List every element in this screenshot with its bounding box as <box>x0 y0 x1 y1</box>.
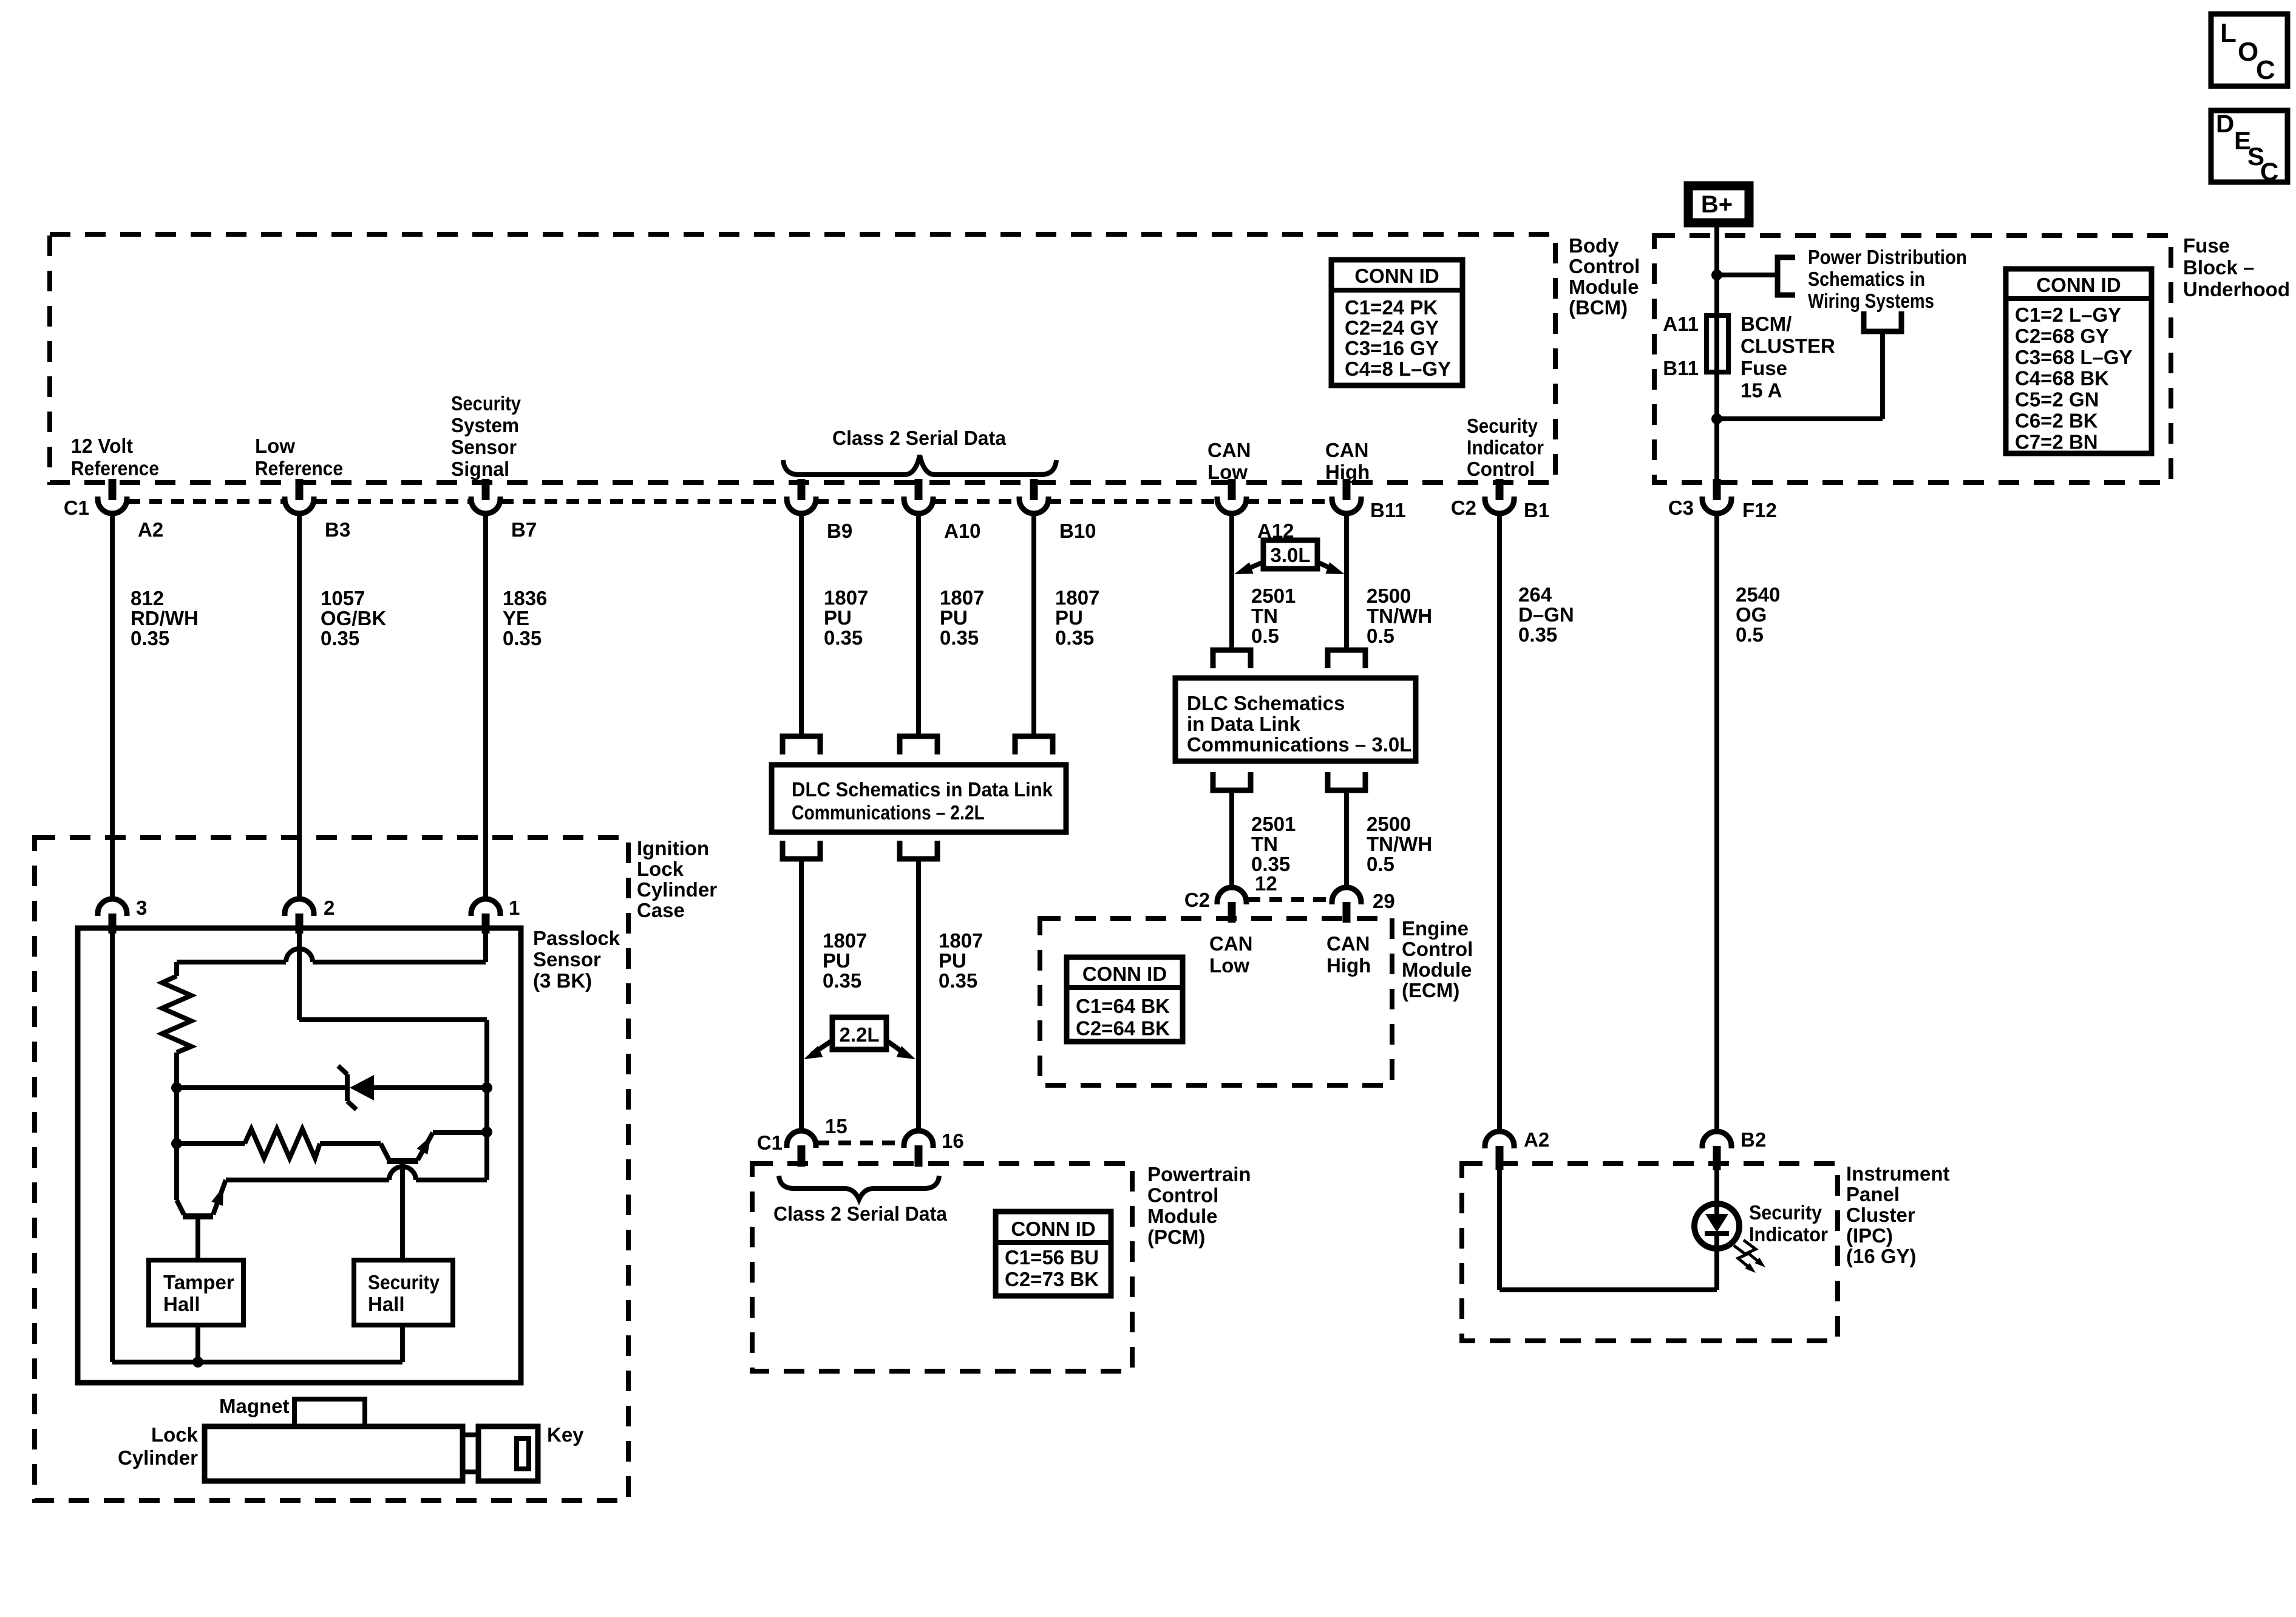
pin 2 <box>296 914 304 934</box>
svg-text:TN: TN <box>1251 605 1278 627</box>
solid box: DLC Schematics in Data Link Communications - 3.0L <box>1175 678 1416 761</box>
connector pin B11 <box>1343 479 1351 500</box>
svg-text:C2=68 GY: C2=68 GY <box>2015 325 2109 347</box>
wire from B2 to LED <box>1714 1168 1719 1215</box>
dashed box: Fuse Block - Underhood <box>1654 236 2171 483</box>
wire 2501 TN to ECM <box>1229 790 1234 886</box>
solid box: Passlock Sensor <box>78 928 521 1383</box>
staples out of DLC 2.2L box <box>783 841 820 859</box>
svg-text:CONN ID: CONN ID <box>1082 963 1167 985</box>
svg-text:Schematics in: Schematics in <box>1808 268 1925 290</box>
svg-text:0.35: 0.35 <box>321 627 359 649</box>
3.0L arrow line right <box>1317 562 1337 571</box>
svg-text:Case: Case <box>637 899 685 921</box>
svg-text:A2: A2 <box>1524 1128 1549 1151</box>
wire below LED <box>1714 1233 1719 1290</box>
ECM CONN ID table <box>1067 957 1183 1042</box>
svg-text:2.2L: 2.2L <box>839 1023 879 1046</box>
wire: Q2 emitter to right rail <box>433 1130 487 1135</box>
svg-text:Security: Security <box>1749 1201 1822 1224</box>
svg-text:PU: PU <box>940 606 968 629</box>
svg-text:TN/WH: TN/WH <box>1367 605 1432 627</box>
junction: R1 / zener line <box>171 1082 182 1093</box>
svg-text:C1: C1 <box>64 497 89 519</box>
svg-text:0.35: 0.35 <box>131 627 169 649</box>
dashed box: Instrument Panel Cluster (IPC) <box>1462 1164 1838 1341</box>
brace over class 2 serial data wires <box>783 455 1056 475</box>
off-page return staple <box>1864 311 1901 331</box>
3.0L engine callout with arrows <box>1263 540 1317 569</box>
Q1 base stem to Tamper Hall <box>195 1216 200 1260</box>
svg-text:C3=68 L–GY: C3=68 L–GY <box>2015 346 2133 368</box>
svg-text:Low: Low <box>1207 461 1248 483</box>
svg-text:OG/BK: OG/BK <box>321 607 386 629</box>
svg-text:TN: TN <box>1251 833 1278 855</box>
svg-text:C4=8 L–GY: C4=8 L–GY <box>1345 358 1451 380</box>
svg-text:Indicator: Indicator <box>1749 1223 1828 1246</box>
connector C3 pin F12 <box>1713 479 1721 500</box>
wire across IPC <box>1500 1287 1717 1292</box>
staples into DLC 3.0L box <box>1213 650 1251 668</box>
svg-text:B2: B2 <box>1741 1128 1766 1151</box>
brace under class 2 serial data (PCM) <box>779 1176 939 1199</box>
svg-text:Control: Control <box>1402 938 1473 960</box>
pin 1 <box>482 914 490 934</box>
DESC legend box <box>2211 110 2288 182</box>
svg-text:Signal: Signal <box>451 458 509 480</box>
solid box: DLC Schematics in Data Link Communications - 2.2L <box>772 765 1066 832</box>
svg-text:A10: A10 <box>944 520 981 542</box>
Q1 collector <box>177 1200 184 1215</box>
svg-text:OG: OG <box>1736 603 1767 626</box>
wire 1807 PU (B10) <box>1031 514 1036 736</box>
Q1 base bar <box>183 1213 213 1219</box>
svg-text:CONN ID: CONN ID <box>1354 265 1439 287</box>
svg-text:1: 1 <box>509 897 520 919</box>
svg-text:Key: Key <box>547 1423 584 1446</box>
svg-text:Communications – 3.0L: Communications – 3.0L <box>1187 733 1411 756</box>
svg-text:A11: A11 <box>1663 313 1699 335</box>
svg-text:1807: 1807 <box>940 586 984 609</box>
svg-text:B7: B7 <box>511 518 537 541</box>
pin 3 <box>109 914 117 934</box>
wire 1836 YE <box>483 514 488 900</box>
fuse: BCM/CLUSTER Fuse 15 A <box>1707 316 1728 372</box>
svg-text:in Data Link: in Data Link <box>1187 713 1301 735</box>
svg-text:0.35: 0.35 <box>823 969 861 992</box>
svg-text:F12: F12 <box>1742 499 1777 521</box>
svg-text:Control: Control <box>1467 458 1535 480</box>
svg-text:BCM/: BCM/ <box>1741 313 1792 335</box>
wire: return to B+ feed <box>1717 416 1883 421</box>
svg-text:Security: Security <box>451 392 521 415</box>
svg-text:Class 2 Serial Data: Class 2 Serial Data <box>773 1202 948 1225</box>
svg-text:Wiring Systems: Wiring Systems <box>1808 290 1934 312</box>
svg-text:1807: 1807 <box>1055 586 1099 609</box>
wire: left rail to Q1 collector <box>174 1088 179 1200</box>
svg-text:Underhood: Underhood <box>2183 278 2290 300</box>
dashed box: Powertrain Control Module (PCM) <box>752 1164 1132 1371</box>
svg-text:12: 12 <box>1255 872 1277 895</box>
svg-text:C4=68 BK: C4=68 BK <box>2015 367 2109 390</box>
svg-text:B11: B11 <box>1663 357 1699 379</box>
key coupler <box>463 1435 478 1472</box>
wire 1807 PU to PCM 15 <box>799 859 804 1130</box>
svg-text:CLUSTER: CLUSTER <box>1741 335 1835 358</box>
svg-text:Class 2 Serial Data: Class 2 Serial Data <box>832 427 1007 449</box>
pin 15 <box>798 1145 806 1167</box>
wire: pin1 drop <box>483 934 488 962</box>
svg-text:(BCM): (BCM) <box>1569 296 1628 319</box>
svg-text:3.0L: 3.0L <box>1270 544 1310 566</box>
LED: Security Indicator <box>1694 1204 1739 1249</box>
connector C2 pin B1 <box>1496 479 1504 500</box>
connector pin B10 <box>1030 479 1038 500</box>
3.0L arrowhead left <box>1234 562 1254 574</box>
PCM connector dotted line <box>817 1141 903 1145</box>
Q1 emitter <box>213 1180 226 1215</box>
IPC connector arcs and pins <box>1485 1131 1514 1148</box>
svg-text:264: 264 <box>1518 583 1552 606</box>
svg-text:Instrument: Instrument <box>1846 1162 1950 1185</box>
Q2 collector <box>381 1144 389 1160</box>
svg-text:C1=64 BK: C1=64 BK <box>1076 995 1170 1017</box>
magnet <box>294 1399 365 1426</box>
svg-text:Control: Control <box>1569 255 1640 277</box>
lock cylinder <box>205 1426 463 1481</box>
junction: R2 left <box>171 1138 182 1149</box>
svg-text:(ECM): (ECM) <box>1402 979 1459 1002</box>
svg-text:0.35: 0.35 <box>503 627 542 649</box>
2.2L engine callout with arrows <box>832 1017 886 1049</box>
svg-text:B+: B+ <box>1701 191 1733 218</box>
svg-text:C2=73 BK: C2=73 BK <box>1005 1268 1099 1290</box>
Q2 base stem to Security Hall <box>400 1161 405 1260</box>
Q2 base bar <box>387 1158 418 1164</box>
svg-text:1807: 1807 <box>823 929 867 952</box>
PCM connector arcs and pins <box>787 1131 816 1148</box>
wire: Security Hall to ground bus <box>400 1325 405 1362</box>
svg-text:B3: B3 <box>325 518 350 541</box>
pin A2 (IPC) <box>1496 1146 1504 1170</box>
wire 264 D-GN (Security Indicator Control) <box>1497 514 1502 1130</box>
svg-text:C1=2 L–GY: C1=2 L–GY <box>2015 303 2121 326</box>
svg-text:(IPC): (IPC) <box>1846 1224 1893 1247</box>
svg-text:Lock: Lock <box>637 858 684 880</box>
svg-text:CAN: CAN <box>1207 439 1251 461</box>
ECM connector dotted line <box>1248 897 1331 902</box>
pin B2 (IPC) <box>1713 1146 1721 1170</box>
svg-text:L: L <box>2220 18 2237 48</box>
svg-text:CAN: CAN <box>1325 439 1369 461</box>
svg-text:C7=2 BN: C7=2 BN <box>2015 430 2098 453</box>
off-page bracket: Power Distribution <box>1778 257 1795 295</box>
svg-text:(PCM): (PCM) <box>1147 1226 1205 1249</box>
svg-text:Module: Module <box>1569 276 1639 298</box>
svg-text:CAN: CAN <box>1209 932 1253 955</box>
junction to Power Distribution feed <box>1711 269 1722 280</box>
svg-text:Ignition: Ignition <box>637 837 709 859</box>
svg-text:2501: 2501 <box>1251 813 1296 835</box>
svg-text:PU: PU <box>939 949 966 972</box>
staples into DLC 2.2L box <box>783 736 820 754</box>
box: Security Hall <box>354 1260 453 1325</box>
svg-text:0.35: 0.35 <box>1055 626 1094 649</box>
svg-text:Security: Security <box>368 1271 440 1293</box>
resistor R1 (vertical) <box>162 976 191 1053</box>
wire 2500 TN/WH (CAN High) <box>1344 514 1349 650</box>
svg-text:YE: YE <box>503 607 529 629</box>
svg-text:PU: PU <box>824 606 852 629</box>
svg-text:Reference: Reference <box>255 457 343 480</box>
wire: pin2 across <box>299 1017 487 1022</box>
junction: tamper hall ground <box>192 1357 203 1368</box>
key <box>478 1426 538 1481</box>
svg-text:CONN ID: CONN ID <box>2036 274 2121 296</box>
svg-text:C2: C2 <box>1451 497 1476 519</box>
Q2 emitter <box>418 1133 433 1160</box>
svg-text:12 Volt: 12 Volt <box>71 435 133 457</box>
svg-text:C1: C1 <box>757 1131 783 1154</box>
svg-text:1057: 1057 <box>321 587 365 609</box>
wire 2500 TN/WH to ECM <box>1344 790 1349 886</box>
svg-text:High: High <box>1326 954 1371 977</box>
svg-text:Block –: Block – <box>2183 256 2254 279</box>
svg-text:Passlock: Passlock <box>533 927 620 949</box>
svg-text:C1=56 BU: C1=56 BU <box>1005 1246 1099 1269</box>
svg-text:System: System <box>451 414 519 436</box>
svg-text:C5=2 GN: C5=2 GN <box>2015 388 2099 411</box>
wire 1807 PU (B9) <box>799 514 804 736</box>
svg-text:Magnet: Magnet <box>219 1395 290 1417</box>
svg-text:0.5: 0.5 <box>1736 623 1764 646</box>
svg-text:PU: PU <box>823 949 851 972</box>
wire 2501 TN (CAN Low) <box>1229 514 1234 650</box>
ECM connector arcs and pins <box>1217 887 1246 904</box>
svg-text:812: 812 <box>131 587 164 609</box>
connector pin A12 <box>1228 479 1236 500</box>
wire hop over pin2 wire <box>286 949 313 962</box>
svg-text:Body: Body <box>1569 234 1619 257</box>
svg-text:A2: A2 <box>138 518 163 541</box>
wire hop over Q2 stem <box>389 1167 416 1180</box>
lower cross wire with hop <box>416 1178 487 1182</box>
wire 1057 OG/BK <box>297 514 302 900</box>
3.0L arrowhead right <box>1325 562 1345 574</box>
svg-text:2500: 2500 <box>1367 813 1411 835</box>
svg-text:Security: Security <box>1467 415 1538 437</box>
LED light rays <box>1734 1246 1752 1270</box>
svg-text:3: 3 <box>136 897 147 919</box>
junction: Q2 emitter <box>481 1127 492 1137</box>
box: Tamper Hall <box>149 1260 243 1325</box>
svg-text:C1=24 PK: C1=24 PK <box>1345 296 1438 319</box>
svg-text:C2: C2 <box>1184 889 1210 911</box>
svg-text:15 A: 15 A <box>1741 379 1782 402</box>
wire: Tamper Hall to ground bus <box>195 1325 200 1362</box>
2.2L arrow line right <box>886 1040 906 1054</box>
connector pin B3 <box>296 479 304 500</box>
svg-text:Module: Module <box>1147 1205 1217 1227</box>
svg-text:16: 16 <box>942 1130 964 1152</box>
resistor R2 (horizontal) <box>245 1129 320 1158</box>
svg-text:Engine: Engine <box>1402 917 1469 940</box>
LOC legend box <box>2211 14 2288 86</box>
zener diode <box>345 1074 350 1101</box>
svg-text:TN/WH: TN/WH <box>1367 833 1432 855</box>
svg-text:PU: PU <box>1055 606 1083 629</box>
B+ battery feed terminal <box>1688 186 1749 223</box>
svg-text:1807: 1807 <box>824 586 868 609</box>
2.2L arrowhead right <box>897 1046 915 1059</box>
junction: zener right <box>481 1082 492 1093</box>
svg-text:D: D <box>2216 109 2234 138</box>
svg-text:RD/WH: RD/WH <box>131 607 199 629</box>
dashed box: Body Control Module (BCM) <box>50 234 1555 483</box>
svg-text:15: 15 <box>825 1115 847 1137</box>
svg-text:B11: B11 <box>1370 499 1406 521</box>
PCM CONN ID table <box>996 1212 1111 1296</box>
svg-text:2: 2 <box>324 897 335 919</box>
svg-text:C: C <box>2256 55 2275 85</box>
svg-text:Hall: Hall <box>368 1293 405 1315</box>
wire 1807 PU (A10) <box>916 514 921 736</box>
svg-text:1807: 1807 <box>939 929 983 952</box>
svg-text:DLC Schematics: DLC Schematics <box>1187 692 1345 714</box>
svg-text:C3=16 GY: C3=16 GY <box>1345 337 1439 359</box>
svg-text:CAN: CAN <box>1326 932 1370 955</box>
svg-text:Power Distribution: Power Distribution <box>1808 246 1967 268</box>
svg-text:CONN ID: CONN ID <box>1011 1218 1095 1240</box>
Q1 emitter arrow <box>211 1187 223 1206</box>
svg-text:0.5: 0.5 <box>1367 625 1394 647</box>
wire: ground bus <box>112 1360 402 1364</box>
svg-text:0.5: 0.5 <box>1367 853 1394 875</box>
svg-text:Powertrain: Powertrain <box>1147 1163 1251 1185</box>
svg-text:29: 29 <box>1373 890 1395 912</box>
connector pin B9 <box>798 479 806 500</box>
svg-text:Sensor: Sensor <box>451 436 517 458</box>
wire: pin3 ground rail <box>110 934 115 1362</box>
svg-text:0.35: 0.35 <box>939 969 977 992</box>
svg-text:(16 GY): (16 GY) <box>1846 1245 1917 1267</box>
svg-text:Low: Low <box>255 435 295 457</box>
svg-text:Cylinder: Cylinder <box>118 1446 198 1469</box>
svg-text:Control: Control <box>1147 1184 1218 1207</box>
svg-text:B1: B1 <box>1524 499 1549 521</box>
svg-text:0.35: 0.35 <box>940 626 979 649</box>
svg-text:Fuse: Fuse <box>2183 234 2230 257</box>
staples out of DLC 3.0L box <box>1213 772 1251 790</box>
BCM connector dotted line (inline connectors C1/C2) <box>127 499 284 504</box>
wire: return stem <box>1880 331 1885 419</box>
svg-text:Indicator: Indicator <box>1467 436 1544 459</box>
svg-text:C6=2 BK: C6=2 BK <box>2015 410 2098 432</box>
svg-text:Lock: Lock <box>151 1423 199 1446</box>
svg-text:D–GN: D–GN <box>1518 603 1574 626</box>
svg-text:2500: 2500 <box>1367 585 1411 607</box>
svg-text:B10: B10 <box>1059 520 1096 542</box>
svg-text:0.5: 0.5 <box>1251 625 1279 647</box>
pin 12 <box>1228 902 1236 923</box>
svg-text:0.35: 0.35 <box>1518 623 1557 646</box>
2.2L arrow line left <box>812 1040 832 1054</box>
wire: B+ feed down through Fuse Block to fuse and C3 F12 <box>1714 227 1719 481</box>
svg-text:C3: C3 <box>1668 497 1694 519</box>
fuse block CONN ID table <box>2006 269 2152 453</box>
svg-text:Low: Low <box>1209 954 1249 977</box>
svg-text:1836: 1836 <box>503 587 547 609</box>
wire: right rail <box>484 1020 489 1180</box>
Q2 emitter arrow <box>417 1136 431 1154</box>
svg-text:C: C <box>2260 157 2278 186</box>
connector C1 pin A2 <box>109 479 117 500</box>
2.2L arrowhead left <box>804 1046 823 1059</box>
svg-text:DLC Schematics in Data Link: DLC Schematics in Data Link <box>792 778 1053 801</box>
dashed box: Engine Control Module (ECM) <box>1040 918 1392 1085</box>
wire 812 RD/WH <box>110 514 115 900</box>
zener diode line <box>177 1085 346 1090</box>
wire from A2 <box>1497 1168 1502 1290</box>
wire: pin1 to resistor <box>313 960 486 964</box>
key slot <box>517 1439 529 1469</box>
svg-text:Module: Module <box>1402 958 1472 981</box>
svg-text:Reference: Reference <box>71 457 159 480</box>
wire 2540 OG <box>1714 514 1719 1130</box>
wire to power distribution bracket <box>1717 273 1778 277</box>
svg-text:Fuse: Fuse <box>1741 357 1787 379</box>
svg-text:B9: B9 <box>827 520 852 542</box>
BCM CONN ID table <box>1331 260 1462 385</box>
svg-text:0.35: 0.35 <box>824 626 863 649</box>
wire 1807 PU to PCM 16 <box>916 859 921 1130</box>
Passlock sensor connector arcs <box>98 899 127 916</box>
svg-text:C2=24 GY: C2=24 GY <box>1345 317 1439 339</box>
connector pin A10 <box>915 479 923 500</box>
pin 16 <box>915 1145 923 1167</box>
svg-text:Hall: Hall <box>163 1293 200 1315</box>
svg-text:Communications – 2.2L: Communications – 2.2L <box>792 801 985 824</box>
svg-text:Sensor: Sensor <box>533 948 601 971</box>
junction below fuse <box>1711 413 1722 424</box>
dashed box: Ignition Lock Cylinder Case <box>35 838 628 1500</box>
pin 29 <box>1343 902 1351 923</box>
svg-text:(3 BK): (3 BK) <box>533 969 592 992</box>
3.0L arrow line left <box>1242 562 1263 571</box>
svg-text:2540: 2540 <box>1736 583 1780 606</box>
svg-text:Panel: Panel <box>1846 1183 1900 1205</box>
connector pin B7 <box>482 479 490 500</box>
svg-text:2501: 2501 <box>1251 585 1296 607</box>
wire: pin2 drop <box>297 934 302 1020</box>
svg-text:C2=64 BK: C2=64 BK <box>1076 1017 1170 1040</box>
svg-text:Cylinder: Cylinder <box>637 878 717 901</box>
svg-text:Tamper: Tamper <box>163 1271 234 1293</box>
svg-text:Cluster: Cluster <box>1846 1204 1915 1226</box>
